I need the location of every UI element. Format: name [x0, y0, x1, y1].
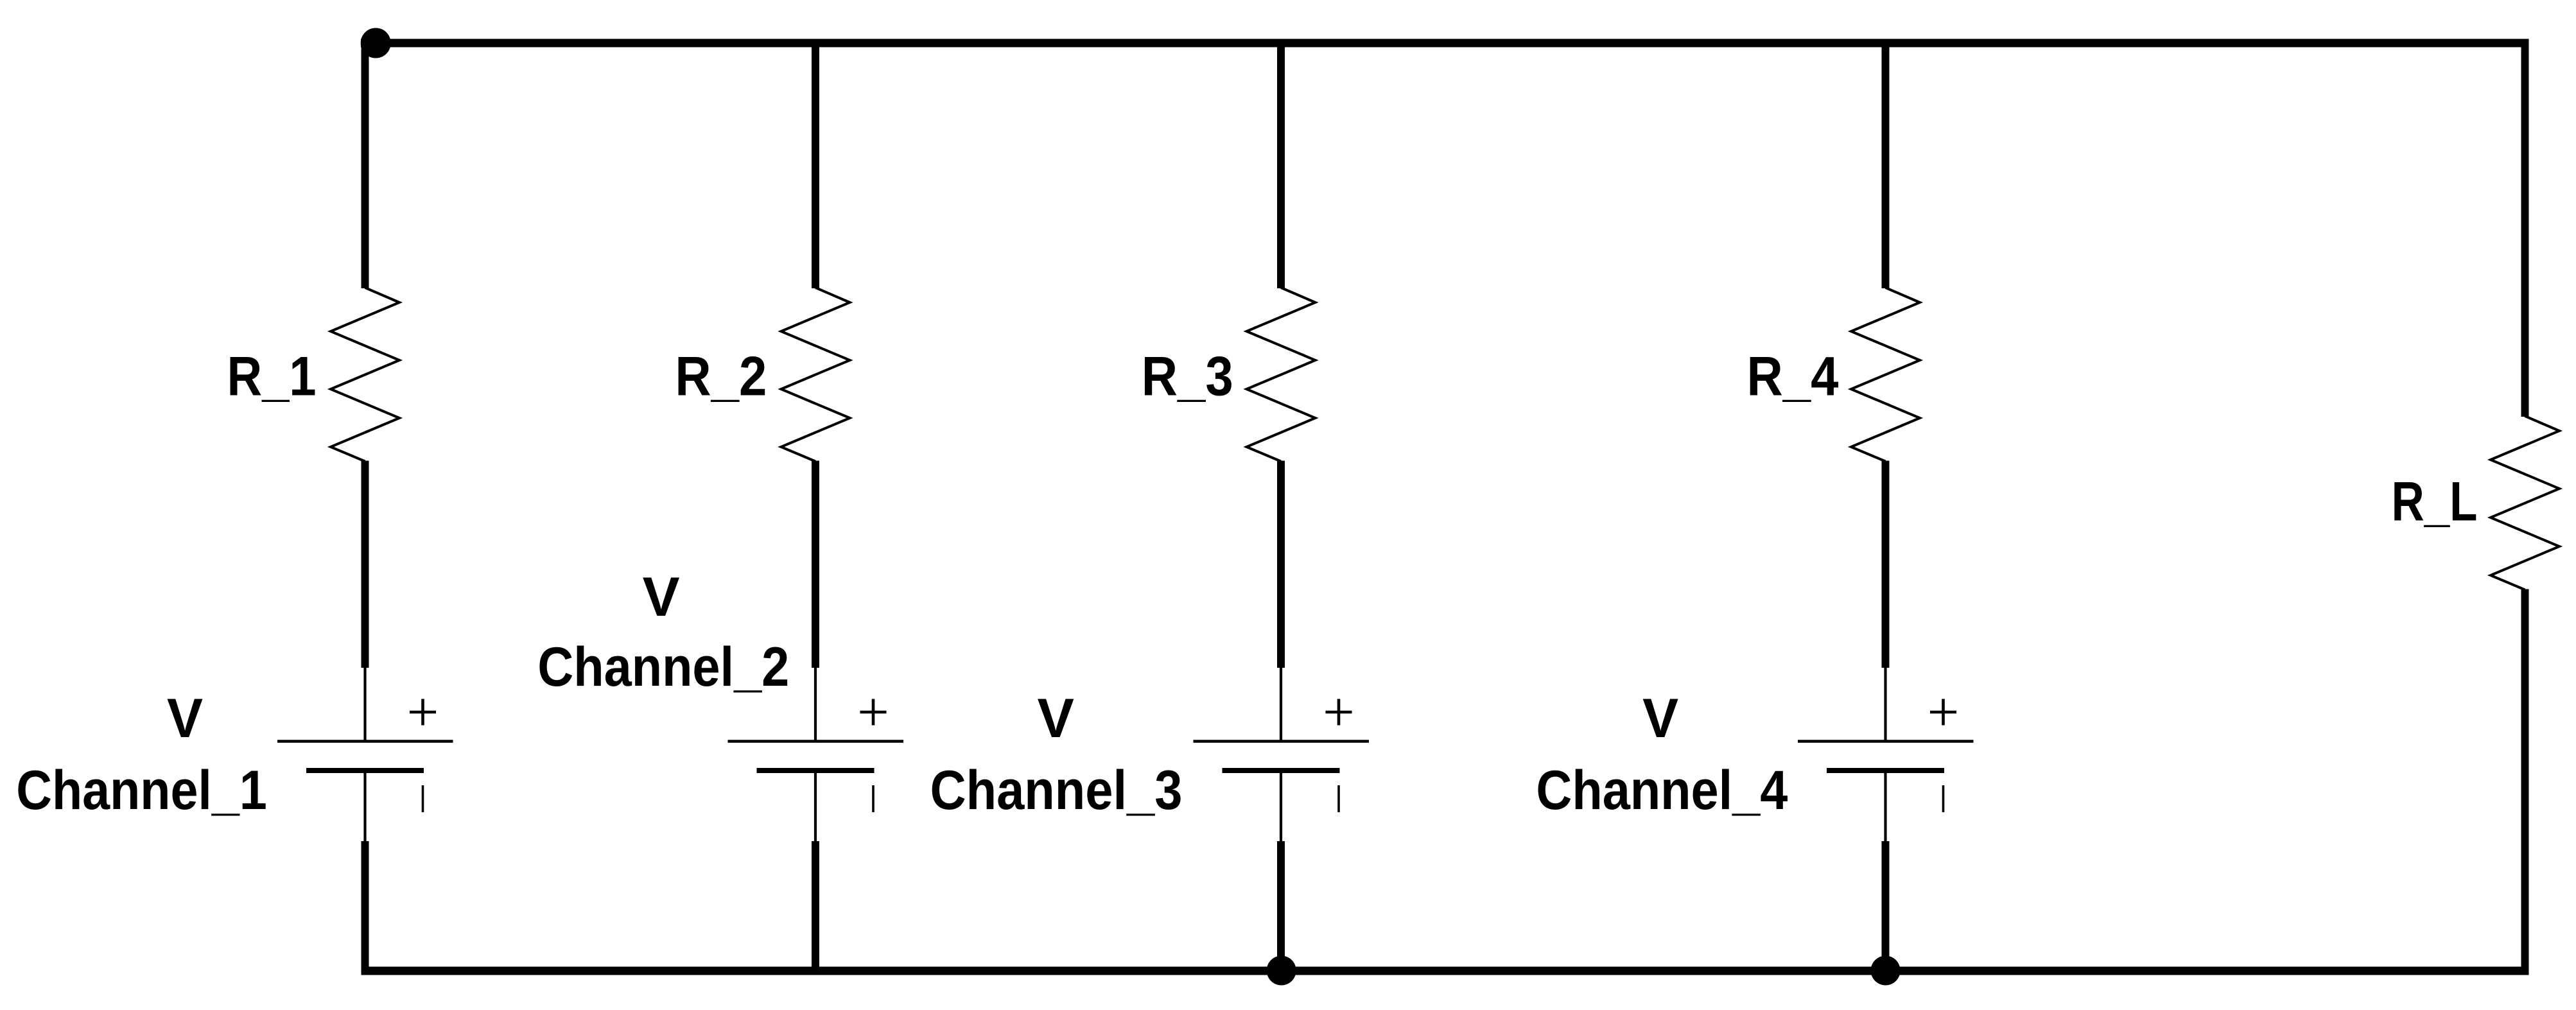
wire: branch 2 from resistor R_2 to battery V Channel_2 [812, 461, 819, 668]
svg-text:Channel_1: Channel_1 [16, 760, 267, 821]
wire: branch 4 from battery V Channel_4 to bottom bus [1882, 841, 1890, 971]
resistor R_4 [1851, 288, 1920, 462]
svg-text:R_1: R_1 [227, 346, 317, 408]
battery V Channel_2 plus polarity mark [860, 699, 887, 726]
wire: branch 2 from battery V Channel_2 to bottom bus [812, 841, 819, 971]
wire: branch 4 from top bus to resistor R_4 [1882, 39, 1890, 289]
wire: branch 4 from resistor R_4 to battery V Channel_4 [1882, 461, 1890, 668]
wire: thin lead into battery V Channel_4 positive plate [1884, 668, 1886, 740]
resistor R_L (load) [2491, 416, 2559, 590]
svg-text:V: V [643, 566, 680, 628]
battery V Channel_2 positive plate [728, 740, 904, 743]
wire: branch 3 from resistor R_3 to battery V Channel_3 [1277, 461, 1285, 668]
wire: bottom bus (node B) [361, 967, 2529, 975]
wire: thin lead into battery V Channel_3 positive plate [1280, 668, 1282, 740]
svg-text:Channel_4: Channel_4 [1536, 760, 1788, 821]
wire: right branch from top bus to load resistor R_L [2521, 39, 2529, 417]
wire: branch 1 from resistor R_1 to battery V Channel_1 [361, 461, 369, 668]
wire: branch 3 from battery V Channel_3 to bottom bus [1277, 841, 1285, 971]
svg-text:R_L: R_L [2392, 471, 2478, 533]
svg-text:V: V [1038, 688, 1075, 749]
svg-text:V: V [167, 688, 203, 749]
wire: right branch from load resistor R_L to bottom bus [2521, 589, 2529, 971]
svg-text:R_4: R_4 [1747, 346, 1839, 408]
battery V Channel_4 name label [1536, 688, 1788, 821]
wire: thin lead out of battery V Channel_4 negative plate [1884, 773, 1886, 842]
node B: junction dot at bottom of branch 3 [1267, 956, 1296, 986]
svg-text:Channel_3: Channel_3 [930, 760, 1183, 821]
wire: thin lead into battery V Channel_1 positive plate [363, 668, 366, 740]
svg-text:Channel_2: Channel_2 [537, 636, 789, 698]
wire: thin lead out of battery V Channel_2 negative plate [814, 773, 817, 842]
battery V Channel_4 plus polarity mark [1930, 699, 1956, 726]
wire: thin lead into battery V Channel_2 positive plate [814, 668, 817, 740]
battery V Channel_3 minus polarity mark [1337, 785, 1340, 812]
resistor R_1 [331, 288, 399, 462]
wire: branch 2 from top bus to resistor R_2 [812, 39, 819, 289]
battery V Channel_4 negative plate [1827, 768, 1944, 773]
battery V Channel_1 minus polarity mark [422, 785, 424, 812]
battery V Channel_1 name label [16, 688, 267, 821]
wire: branch 1 from battery V Channel_1 to bottom bus [361, 841, 369, 971]
wire: top bus (node A) [361, 39, 2529, 48]
battery V Channel_4 positive plate [1798, 740, 1974, 743]
battery V Channel_3 name label [930, 688, 1183, 821]
node A: junction dot at top of branch 1 [361, 28, 391, 58]
svg-text:V: V [1642, 688, 1678, 749]
battery V Channel_1 positive plate [277, 740, 453, 743]
wire: thin lead out of battery V Channel_1 negative plate [363, 773, 366, 842]
battery V Channel_3 plus polarity mark [1326, 699, 1352, 726]
battery V Channel_4 minus polarity mark [1942, 785, 1945, 812]
node B: junction dot at bottom of branch 4 [1871, 956, 1901, 986]
battery V Channel_2 negative plate [757, 768, 875, 773]
resistor R_2 [781, 288, 850, 462]
battery V Channel_2 minus polarity mark [872, 785, 875, 812]
resistor R_3 [1247, 288, 1316, 462]
battery V Channel_3 positive plate [1194, 740, 1370, 743]
battery V Channel_2 name label [537, 566, 789, 698]
battery V Channel_3 negative plate [1223, 768, 1340, 773]
wire: branch 1 from top bus to resistor R_1 [361, 39, 369, 289]
svg-text:R_2: R_2 [675, 346, 767, 408]
wire: branch 3 from top bus to resistor R_3 [1277, 39, 1285, 289]
wire: thin lead out of battery V Channel_3 negative plate [1280, 773, 1282, 842]
battery V Channel_1 negative plate [306, 768, 424, 773]
svg-text:R_3: R_3 [1142, 346, 1233, 408]
battery V Channel_1 plus polarity mark [410, 699, 436, 726]
